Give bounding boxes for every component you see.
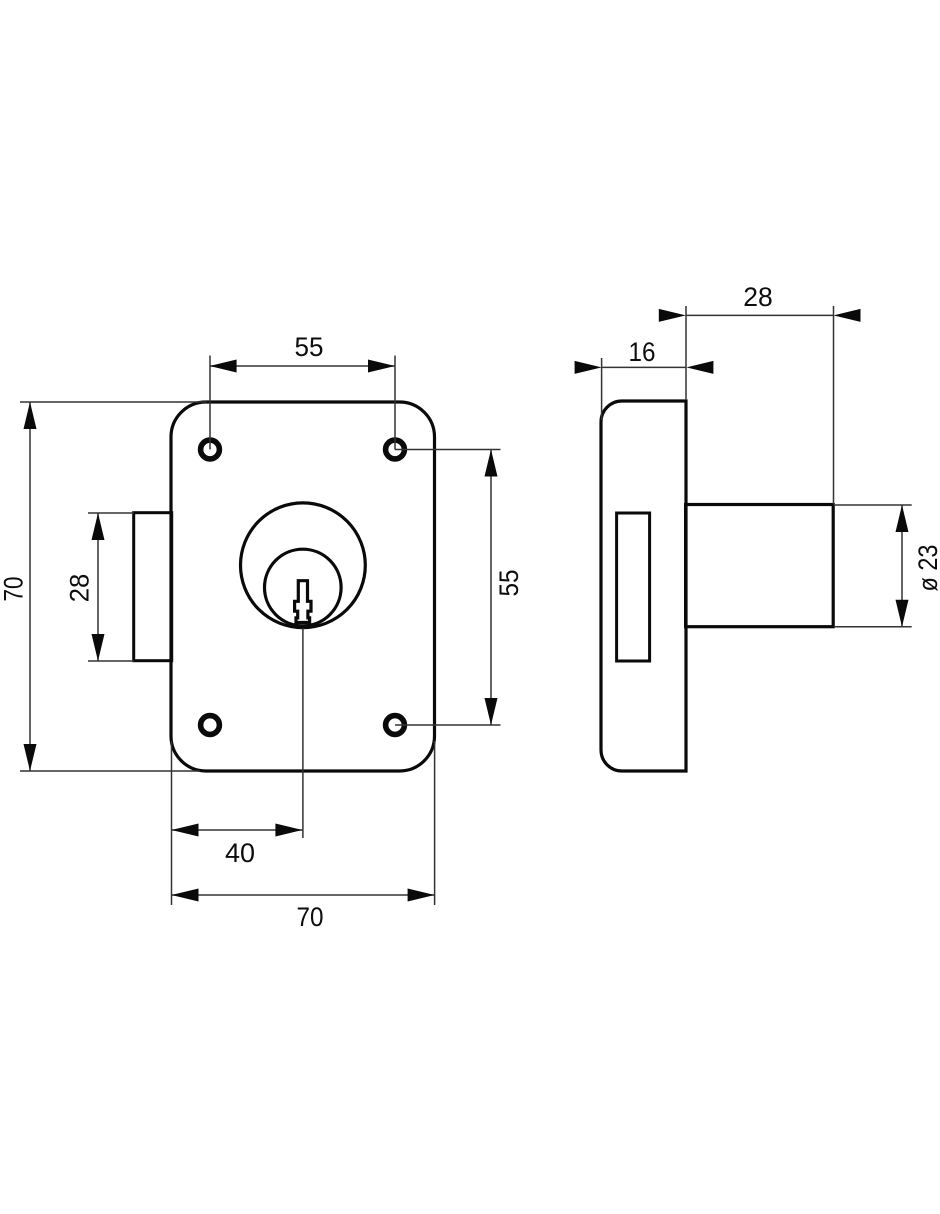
dim 70 bottom: dimension line [172,894,435,896]
dim 55 right: bottom arrowhead [485,698,498,725]
dim o23: bottom arrowhead [896,600,909,627]
dim 70 left: bottom arrowhead [24,744,37,771]
dim 70 left: top arrowhead [24,402,37,429]
side body outline [601,401,686,771]
dim o23: top arrowhead [896,505,909,532]
dim 55 right: extension line bottom [395,724,501,726]
svg-text:40: 40 [225,838,255,868]
dim 70 bottom: left arrowhead [172,889,199,902]
front plate outline [171,402,435,771]
svg-text:28: 28 [743,282,773,312]
dim 55 top: extension line right [394,356,396,450]
dim 70 bottom: right arrowhead [408,889,435,902]
dim 28 left: extension line top [88,512,134,514]
dim 28 top: left arrowhead [659,309,686,322]
dim 40 bottom: extension line left [171,741,173,905]
dim 28 left: bottom arrowhead [92,634,105,661]
dim 28 left: extension line bottom [88,660,134,662]
dim 70 bottom: extension line right [434,741,436,905]
dim 16: right arrowhead [686,361,713,374]
dim 16: dimension line [602,366,687,368]
dim 16: left arrowhead [575,361,602,374]
dim 55 top: dimension line [210,365,395,367]
dim 70 left: dimension line [29,402,31,771]
dim 28 left: top arrowhead [92,513,105,540]
bolt box left of plate [134,513,172,661]
screw hole bottom-left [201,716,220,735]
svg-text:70: 70 [0,577,28,602]
dim o23: extension line bottom [835,626,912,628]
dim 55 right: dimension line [490,450,492,726]
dim 55 right: extension line top [395,449,501,451]
dim 28 left: dimension line [97,513,99,661]
dim 28 top: extension line right [833,306,835,505]
side slot rectangle [617,513,650,661]
svg-text:55: 55 [295,332,324,362]
dim o23: dimension line [901,505,903,627]
dim 55 top: right arrowhead [368,360,395,373]
svg-text:70: 70 [297,902,324,932]
side cylinder [686,505,834,627]
svg-text:ø 23: ø 23 [913,545,940,592]
dim 55 top: extension line left [209,356,211,450]
keyway centre line [302,628,304,838]
dim 40 bottom: left arrowhead [172,824,199,837]
dim 70 left: extension line top [20,401,207,403]
cylinder plug inner circle [265,549,342,626]
dim 40 bottom: dimension line [172,829,303,831]
keyway profile [295,581,311,623]
dim 28 top: extension line left [685,306,687,400]
screw hole top-left [201,440,220,459]
screw hole top-right [386,440,405,459]
dim 28 top: right arrowhead [834,309,861,322]
dim 28 top: dimension line [686,314,834,316]
dim o23: extension line top [835,504,912,506]
svg-text:28: 28 [65,574,95,603]
cylinder rose big circle [241,503,366,628]
dim 40 bottom: right arrowhead [275,824,302,837]
dim 16: extension line left [601,358,603,420]
dim 70 left: extension line bottom [20,770,200,772]
dim 55 top: left arrowhead [210,360,237,373]
dim 55 right: top arrowhead [485,450,498,477]
svg-text:55: 55 [494,570,524,597]
screw hole bottom-right [386,716,405,735]
svg-text:16: 16 [629,337,656,367]
